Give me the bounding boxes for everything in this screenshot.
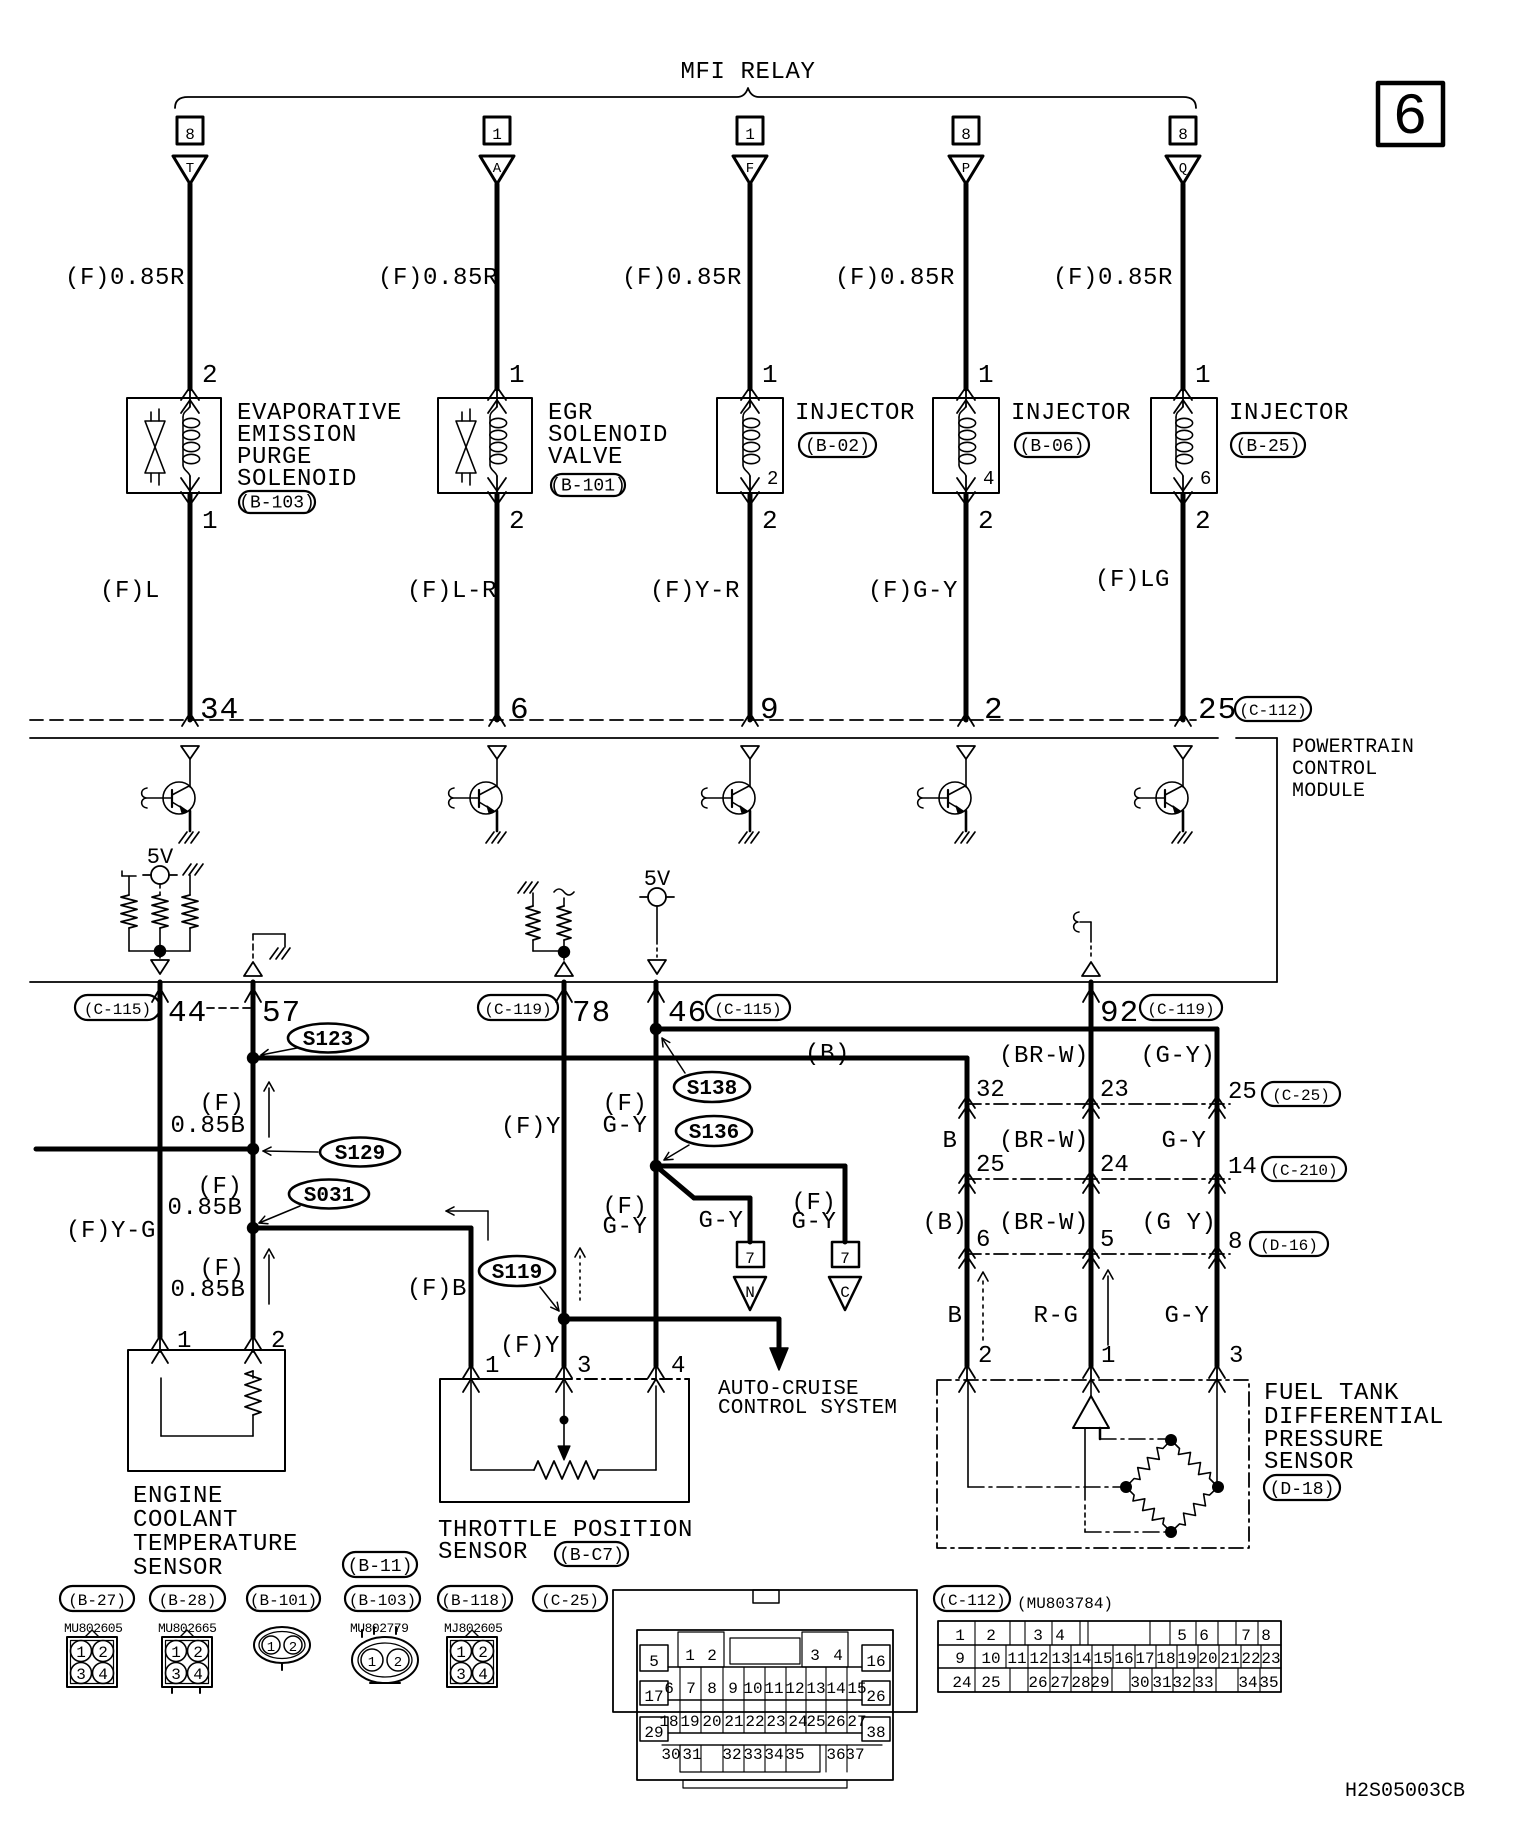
PCM marker pin 78: [555, 962, 573, 976]
ref label D-18: [1264, 1475, 1340, 1500]
svg-text:SENSOR: SENSOR: [438, 1539, 528, 1566]
exit chevrons: [1174, 478, 1192, 491]
svg-text:4: 4: [671, 1353, 685, 1380]
svg-text:(BR-W): (BR-W): [999, 1210, 1089, 1237]
wire 78 to TPS: [562, 982, 567, 1366]
connector square pin 1 col A: [484, 117, 510, 144]
dashed link pins 44-57: [207, 1007, 250, 1009]
wire 92 to FTDP sensor: [1089, 982, 1094, 1366]
svg-text:44: 44: [168, 996, 207, 1031]
svg-text:22: 22: [1241, 1650, 1260, 1668]
svg-text:14: 14: [1072, 1650, 1091, 1668]
svg-text:17: 17: [1135, 1650, 1154, 1668]
svg-text:7: 7: [745, 1250, 755, 1268]
ground at Q5: [1172, 832, 1180, 843]
svg-text:(B-25): (B-25): [1236, 437, 1301, 457]
injector coil: [959, 406, 966, 417]
direction arrow on wire 57 upper: [268, 1088, 270, 1137]
svg-text:1: 1: [1195, 360, 1211, 390]
splice S136 junction: [650, 1160, 662, 1172]
svg-text:A: A: [493, 161, 502, 177]
svg-text:(B-02): (B-02): [805, 437, 870, 457]
svg-text:31: 31: [682, 1746, 701, 1764]
svg-text:S119: S119: [492, 1262, 542, 1285]
wire S136 to auto-cruise N: [656, 1166, 694, 1198]
injector coil: [1176, 406, 1183, 417]
C-112 cell separators: [974, 1621, 976, 1645]
svg-text:16: 16: [1114, 1650, 1133, 1668]
wire 44 to ECT sensor (F)Y-G: [158, 982, 163, 1337]
splice S129 junction: [247, 1143, 259, 1155]
svg-text:(C-115): (C-115): [84, 1001, 151, 1019]
svg-text:1: 1: [509, 360, 525, 390]
svg-text:1: 1: [456, 1644, 466, 1662]
wire from relay T down to component: [188, 184, 193, 389]
internal lead pin 92: [1074, 912, 1079, 932]
connector B-103 drawing: [345, 1586, 420, 1611]
relay terminal triangle A: [480, 156, 514, 184]
svg-text:2: 2: [98, 1644, 108, 1662]
svg-text:(BR-W): (BR-W): [999, 1043, 1089, 1070]
svg-text:24: 24: [1100, 1152, 1129, 1179]
svg-text:(F)Y-G: (F)Y-G: [66, 1218, 156, 1245]
solenoid coil: [183, 406, 190, 417]
svg-text:(F)Y-R: (F)Y-R: [650, 578, 740, 605]
valve symbol: [461, 412, 463, 421]
PCM top dashed boundary line: [30, 719, 1196, 721]
svg-text:SENSOR: SENSOR: [1264, 1449, 1354, 1476]
svg-text:26: 26: [826, 1713, 845, 1731]
svg-text:34: 34: [764, 1746, 783, 1764]
svg-text:1: 1: [368, 1655, 376, 1671]
svg-text:33: 33: [1194, 1674, 1213, 1692]
svg-text:(B-118): (B-118): [441, 1592, 508, 1610]
svg-text:16: 16: [866, 1653, 885, 1671]
connector B-118: [438, 1586, 512, 1611]
exit chevrons: [488, 478, 506, 491]
svg-text:4: 4: [983, 468, 994, 490]
svg-text:INJECTOR: INJECTOR: [1011, 400, 1131, 427]
svg-text:G-Y: G-Y: [602, 1113, 647, 1140]
svg-text:15: 15: [1093, 1650, 1112, 1668]
wire down to PCM: [964, 494, 969, 720]
svg-text:2: 2: [193, 1644, 203, 1662]
svg-text:(G Y): (G Y): [1141, 1210, 1216, 1237]
svg-text:(F)Y: (F)Y: [500, 1333, 560, 1360]
svg-text:(B-06): (B-06): [1020, 437, 1085, 457]
svg-text:(B): (B): [922, 1210, 967, 1237]
wire 57 to ECT sensor: [251, 982, 256, 1337]
svg-text:11: 11: [764, 1680, 783, 1698]
svg-text:2: 2: [978, 1343, 992, 1370]
connector square pin 8 col Q: [1170, 117, 1196, 144]
svg-text:3: 3: [1033, 1627, 1043, 1645]
auto-cruise connector 7 pin N: [737, 1242, 764, 1267]
svg-text:MFI RELAY: MFI RELAY: [680, 59, 815, 86]
connector square pin 8 col P: [953, 117, 979, 144]
svg-text:8: 8: [961, 126, 971, 144]
svg-text:4: 4: [478, 1666, 488, 1684]
svg-text:G-Y: G-Y: [791, 1209, 836, 1236]
svg-text:(F)L: (F)L: [100, 578, 160, 605]
svg-text:4: 4: [1055, 1627, 1065, 1645]
svg-text:3: 3: [456, 1666, 466, 1684]
wire S123 to fuel sensor (B): [253, 1056, 967, 1061]
svg-text:(B-103): (B-103): [349, 1592, 416, 1610]
svg-text:25: 25: [806, 1713, 825, 1731]
svg-text:MU802605: MU802605: [64, 1621, 122, 1636]
component box injector B-06: [933, 398, 999, 493]
svg-text:CONTROL SYSTEM: CONTROL SYSTEM: [718, 1397, 897, 1420]
svg-text:3: 3: [76, 1666, 86, 1684]
connector C-25 housing: [613, 1590, 917, 1712]
in-line connector row D-16: [967, 1253, 1230, 1255]
svg-text:34: 34: [200, 693, 239, 728]
svg-text:8: 8: [1261, 1627, 1271, 1645]
svg-text:27: 27: [1050, 1674, 1069, 1692]
wire S031 to TPS pin 1 (F)B: [253, 1226, 471, 1231]
svg-text:(D-18): (D-18): [1270, 1480, 1335, 1500]
page number box 6: [1378, 83, 1443, 145]
svg-text:0.85B: 0.85B: [167, 1195, 242, 1222]
svg-text:(F)Y: (F)Y: [501, 1114, 561, 1141]
base lead Q3: [706, 797, 732, 799]
svg-text:F: F: [746, 161, 754, 177]
svg-text:18: 18: [659, 1713, 678, 1731]
svg-text:COOLANT: COOLANT: [133, 1507, 238, 1534]
svg-text:S031: S031: [304, 1185, 354, 1208]
splice S136 label: [676, 1116, 752, 1146]
connector square pin 8 col T: [177, 117, 203, 144]
PCM marker pin 46: [648, 960, 666, 974]
svg-text:C: C: [840, 1284, 850, 1302]
svg-text:57: 57: [262, 996, 301, 1031]
svg-text:21: 21: [724, 1713, 743, 1731]
svg-text:36: 36: [826, 1746, 845, 1764]
svg-text:6: 6: [1393, 86, 1428, 151]
entry chevrons: [1174, 387, 1192, 400]
svg-text:6: 6: [1200, 468, 1211, 490]
svg-text:25: 25: [976, 1152, 1005, 1179]
svg-text:8: 8: [1178, 126, 1188, 144]
svg-text:4: 4: [833, 1647, 843, 1665]
svg-text:2: 2: [394, 1655, 402, 1671]
svg-text:2: 2: [986, 1627, 996, 1645]
direction arrow middle wire: [1107, 1276, 1109, 1345]
entry chevrons: [957, 387, 975, 400]
wire S129 from left: [36, 1147, 253, 1152]
PCM bottom boundary line: [30, 981, 1277, 983]
splice S031 label: [289, 1180, 369, 1209]
FTDP amplifier: [1073, 1396, 1109, 1428]
svg-text:31: 31: [1152, 1674, 1171, 1692]
exit chevrons: [741, 478, 759, 491]
in-line connector row C-25: [967, 1103, 1230, 1105]
ref label B-25: [1231, 433, 1305, 457]
svg-text:12: 12: [785, 1680, 804, 1698]
svg-text:26: 26: [1028, 1674, 1047, 1692]
pin 44 with connector C-115: [75, 995, 160, 1020]
splice S138 label: [674, 1072, 750, 1102]
svg-text:MODULE: MODULE: [1292, 780, 1365, 803]
svg-text:2: 2: [707, 1647, 717, 1665]
svg-text:(F)0.85R: (F)0.85R: [1053, 265, 1173, 292]
svg-text:(C-112): (C-112): [938, 1592, 1005, 1610]
svg-text:(C-112): (C-112): [1239, 702, 1306, 720]
svg-text:35: 35: [1259, 1674, 1278, 1692]
svg-text:3: 3: [577, 1353, 591, 1380]
wire down to PCM: [748, 494, 753, 720]
svg-text:23: 23: [1261, 1650, 1280, 1668]
svg-text:20: 20: [702, 1713, 721, 1731]
MFI relay brace: [175, 88, 1196, 108]
svg-text:21: 21: [1220, 1650, 1239, 1668]
FTDP internal wires: [1084, 1428, 1086, 1500]
svg-text:3: 3: [810, 1647, 820, 1665]
svg-text:G-Y: G-Y: [1164, 1303, 1209, 1330]
entry chevrons: [181, 387, 199, 400]
solenoid coil: [490, 406, 497, 417]
svg-text:1: 1: [492, 126, 502, 144]
svg-text:G-Y: G-Y: [602, 1214, 647, 1241]
svg-text:1: 1: [762, 360, 778, 390]
svg-text:8: 8: [185, 126, 195, 144]
splice S119 label: [479, 1256, 555, 1286]
svg-text:46: 46: [668, 996, 707, 1031]
ground at Q3: [739, 832, 747, 843]
relay terminal triangle Q: [1166, 156, 1200, 184]
svg-text:5: 5: [1177, 1627, 1187, 1645]
svg-text:22: 22: [745, 1713, 764, 1731]
svg-text:1: 1: [978, 360, 994, 390]
PCM marker pin 57: [244, 962, 262, 976]
svg-text:2: 2: [1195, 506, 1211, 536]
base lead Q2: [453, 797, 479, 799]
wire down to PCM: [495, 494, 500, 720]
wire 46 to TPS: [654, 982, 659, 1366]
svg-text:SOLENOID: SOLENOID: [237, 466, 357, 493]
wire S119 to auto-cruise control system: [564, 1317, 779, 1322]
wire from relay F down to component: [748, 184, 753, 389]
svg-text:MJ802605: MJ802605: [444, 1621, 502, 1636]
pin 78 with connector C-119: [478, 995, 558, 1020]
svg-text:(C-119): (C-119): [1147, 1001, 1214, 1019]
svg-text:20: 20: [1198, 1650, 1217, 1668]
svg-text:33: 33: [743, 1746, 762, 1764]
svg-text:14: 14: [826, 1680, 845, 1698]
svg-text:5: 5: [1100, 1227, 1114, 1254]
svg-text:B: B: [947, 1303, 962, 1330]
svg-text:INJECTOR: INJECTOR: [795, 400, 915, 427]
PCM top solid line: [30, 737, 1218, 739]
fuel tank differential pressure sensor box D-18: [937, 1380, 1249, 1548]
svg-text:78: 78: [572, 996, 611, 1031]
svg-text:7: 7: [840, 1250, 850, 1268]
svg-text:N: N: [745, 1284, 755, 1302]
connector B-28: [150, 1586, 225, 1611]
splice S138 junction: [650, 1023, 662, 1035]
wire S136 to auto-cruise C: [656, 1164, 845, 1169]
direction arrow on wire 78: [579, 1254, 581, 1300]
resistor network pin 78: [518, 882, 526, 893]
splice S031 junction: [247, 1222, 259, 1234]
svg-text:13: 13: [1051, 1650, 1070, 1668]
svg-text:(B-101): (B-101): [250, 1592, 317, 1610]
connector C-25 label: [533, 1586, 607, 1611]
svg-text:(F)0.85R: (F)0.85R: [622, 265, 742, 292]
svg-text:POWERTRAIN: POWERTRAIN: [1292, 736, 1414, 759]
connector C-25 face: [637, 1630, 893, 1780]
svg-text:B: B: [942, 1128, 957, 1155]
wire down to PCM: [188, 494, 193, 720]
svg-text:(F)0.85R: (F)0.85R: [835, 265, 955, 292]
svg-text:32: 32: [976, 1077, 1005, 1104]
svg-text:S136: S136: [689, 1122, 739, 1145]
svg-text:(F)0.85R: (F)0.85R: [65, 265, 185, 292]
svg-text:1: 1: [685, 1647, 695, 1665]
C-25 pin rows: [668, 1666, 862, 1668]
svg-text:H2S05003CB: H2S05003CB: [1345, 1780, 1465, 1803]
svg-text:6: 6: [510, 693, 530, 728]
svg-text:T: T: [186, 161, 194, 177]
in-line connector row C-210: [967, 1178, 1230, 1180]
C-25 left latches 5 17 29: [640, 1645, 668, 1671]
svg-text:29: 29: [1090, 1674, 1109, 1692]
svg-text:23: 23: [1100, 1077, 1129, 1104]
connector C-112 face: [938, 1621, 1281, 1692]
svg-text:28: 28: [1071, 1674, 1090, 1692]
ref label B-06: [1015, 433, 1089, 457]
svg-text:11: 11: [1007, 1650, 1026, 1668]
svg-text:(B-11): (B-11): [348, 1557, 413, 1577]
svg-text:38: 38: [866, 1724, 885, 1742]
svg-text:(MU803784): (MU803784): [1017, 1595, 1113, 1613]
svg-text:G-Y: G-Y: [1161, 1128, 1206, 1155]
direction arrow left wire: [982, 1278, 984, 1340]
svg-text:24: 24: [952, 1674, 971, 1692]
valve symbol: [150, 412, 152, 421]
entry chevrons: [488, 387, 506, 400]
svg-text:1: 1: [202, 506, 218, 536]
svg-text:(F)LG: (F)LG: [1095, 567, 1170, 594]
svg-text:24: 24: [788, 1713, 807, 1731]
pullup resistor network pin 44: [122, 875, 136, 877]
ref label B-11: [343, 1552, 417, 1577]
svg-text:1: 1: [1101, 1343, 1115, 1370]
svg-text:32: 32: [722, 1746, 741, 1764]
ground at Q2: [486, 832, 494, 843]
svg-text:4: 4: [98, 1666, 108, 1684]
ground at Q4: [955, 832, 963, 843]
ground at Q1: [179, 832, 187, 843]
svg-text:VALVE: VALVE: [548, 444, 623, 471]
svg-text:10: 10: [743, 1680, 762, 1698]
driver transistor Q1 for pin 34: [181, 746, 199, 759]
direction arrow near S031 corner: [487, 1211, 489, 1240]
ref label B-103: [239, 491, 315, 513]
component box evap purge solenoid B-103: [127, 398, 221, 493]
svg-text:(B): (B): [805, 1041, 850, 1068]
svg-text:6: 6: [664, 1680, 674, 1698]
svg-text:15: 15: [847, 1680, 866, 1698]
driver transistor Q2 for pin 6: [488, 746, 506, 759]
ref label B-02: [799, 433, 876, 457]
svg-text:30: 30: [661, 1746, 680, 1764]
svg-text:12: 12: [1029, 1650, 1048, 1668]
ECT thermistor: [252, 1371, 254, 1378]
ground above right resistor: [183, 864, 191, 875]
svg-text:(C-25): (C-25): [541, 1592, 599, 1610]
ref label B-101: [551, 474, 625, 496]
driver transistor Q4 for pin 2: [957, 746, 975, 759]
svg-text:(B-27): (B-27): [68, 1592, 126, 1610]
ref label B-C7: [555, 1542, 628, 1566]
svg-text:(B-101): (B-101): [550, 477, 626, 497]
svg-text:(BR-W): (BR-W): [999, 1128, 1089, 1155]
svg-text:S138: S138: [687, 1078, 737, 1101]
svg-text:2: 2: [202, 360, 218, 390]
wire from relay P down to component: [964, 184, 969, 389]
svg-text:17: 17: [644, 1688, 663, 1706]
svg-text:10: 10: [981, 1650, 1000, 1668]
svg-text:32: 32: [1172, 1674, 1191, 1692]
svg-text:8: 8: [707, 1680, 717, 1698]
svg-text:(B-28): (B-28): [159, 1592, 217, 1610]
svg-text:P: P: [962, 161, 970, 177]
connector C-112 label: [934, 1586, 1010, 1611]
ECT internal wire: [160, 1378, 162, 1436]
svg-text:(D-16): (D-16): [1260, 1237, 1318, 1255]
svg-text:4: 4: [193, 1666, 203, 1684]
svg-text:(C-115): (C-115): [714, 1001, 781, 1019]
svg-text:1: 1: [177, 1328, 191, 1355]
svg-text:(F)G-Y: (F)G-Y: [868, 578, 958, 605]
TPS potentiometer: [470, 1382, 472, 1470]
svg-text:9: 9: [955, 1650, 965, 1668]
connector B-101: [247, 1586, 320, 1611]
wire from relay A down to component: [495, 184, 500, 389]
PCM output marker pin 44: [151, 960, 169, 974]
svg-text:18: 18: [1156, 1650, 1175, 1668]
PCM marker pin 92: [1082, 962, 1100, 976]
bridge nodes: [1165, 1434, 1177, 1446]
svg-text:SENSOR: SENSOR: [133, 1555, 223, 1582]
svg-text:7: 7: [686, 1680, 696, 1698]
chevron at PCM boundary: [742, 713, 758, 726]
wire from relay Q down to component: [1181, 184, 1186, 389]
chevron at PCM boundary: [958, 713, 974, 726]
connector B-27: [60, 1586, 134, 1611]
base lead Q4: [922, 797, 948, 799]
svg-text:6: 6: [1199, 1627, 1209, 1645]
svg-text:(F)0.85R: (F)0.85R: [378, 265, 498, 292]
entry chevrons: [741, 387, 759, 400]
relay terminal triangle F: [733, 156, 767, 184]
svg-text:27: 27: [847, 1713, 866, 1731]
svg-text:Q: Q: [1179, 161, 1187, 177]
svg-text:26: 26: [866, 1688, 885, 1706]
svg-text:37: 37: [845, 1746, 864, 1764]
component box EGR solenoid valve B-101: [438, 398, 532, 493]
svg-text:(C-210): (C-210): [1270, 1162, 1337, 1180]
svg-text:0.85B: 0.85B: [170, 1277, 245, 1304]
svg-text:(F)B: (F)B: [407, 1276, 467, 1303]
svg-text:2: 2: [478, 1644, 488, 1662]
svg-text:(G-Y): (G-Y): [1140, 1043, 1215, 1070]
direction arrow on wire 57 lower: [268, 1255, 270, 1304]
throttle position sensor box B-C7: [440, 1379, 689, 1502]
engine coolant temperature sensor box B-11: [128, 1350, 285, 1471]
